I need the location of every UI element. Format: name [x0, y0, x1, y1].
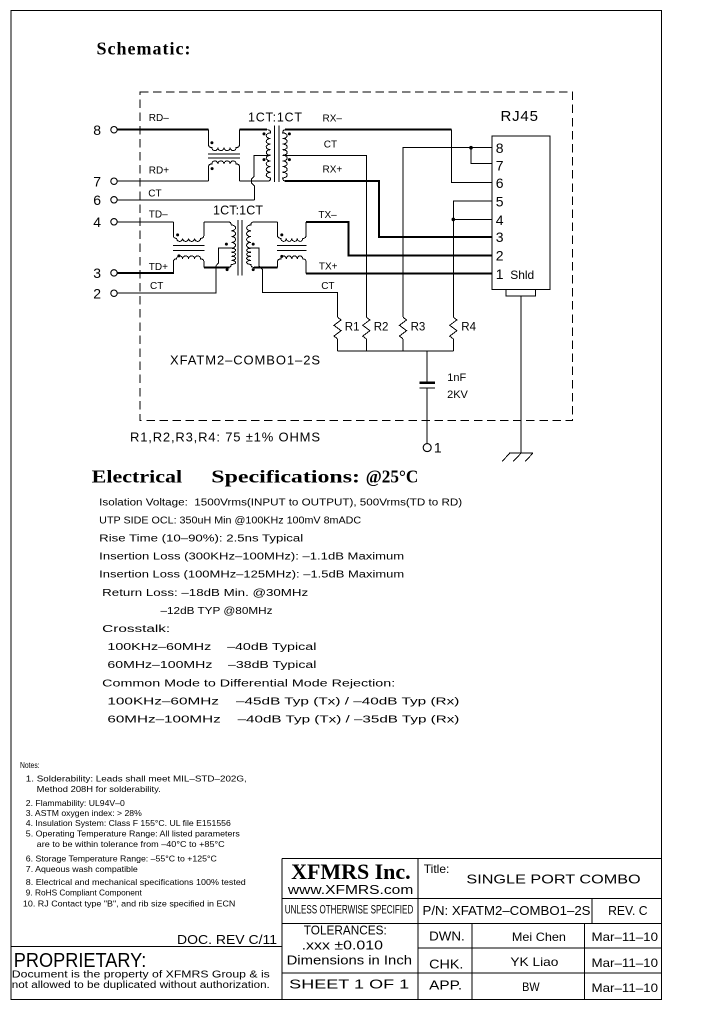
svg-text:100KHz–60MHz –40dB Typical: 100KHz–60MHz –40dB Typical — [107, 642, 316, 653]
transformer T2 secondary winding — [247, 222, 255, 268]
wire bus to capacitor C1 — [426, 351, 428, 381]
terminal pin 3 — [93, 265, 117, 281]
svg-text:R3: R3 — [411, 321, 426, 333]
resistor R4 — [450, 317, 457, 339]
svg-text:7: 7 — [93, 173, 101, 189]
svg-text:Document is the property of XF: Document is the property of XFMRS Group … — [12, 970, 270, 981]
capacitor C1 1nF 2KV — [419, 381, 435, 384]
svg-text:Mar–11–10: Mar–11–10 — [592, 930, 659, 944]
svg-text:are to be within tolerance fro: are to be within tolerance from –40°C to… — [37, 839, 225, 849]
svg-text:8: 8 — [93, 122, 101, 138]
wire T2 secondary bottom to choke — [254, 266, 278, 268]
svg-text:TX–: TX– — [318, 210, 337, 221]
wire T2 secondary center tap to R1 — [251, 248, 338, 317]
wire TX+ to RJ45 pin 1 — [306, 272, 492, 274]
wire choke to transformer T1 primary top — [240, 129, 268, 131]
svg-text:4. Insulation System: Class F: 4. Insulation System: Class F 155°C. UL … — [26, 818, 231, 828]
terminal pin 6 — [93, 192, 117, 208]
wire resistor common bus — [338, 350, 454, 352]
connector RJ45 body — [492, 136, 550, 289]
svg-text:1CT:1CT: 1CT:1CT — [248, 111, 302, 125]
common-mode choke (RX) core — [208, 154, 240, 158]
terminal pin 1 — [423, 444, 431, 452]
svg-text:TOLERANCES:: TOLERANCES: — [304, 922, 387, 937]
svg-text:1. Solderability: Leads shall: 1. Solderability: Leads shall meet MIL–S… — [26, 774, 247, 784]
common-mode choke (TD) lower winding — [173, 256, 204, 273]
svg-text:2. Flammability: UL94V–0: 2. Flammability: UL94V–0 — [26, 798, 125, 808]
ground symbol — [502, 453, 533, 461]
svg-text:DWN.: DWN. — [429, 930, 465, 944]
wire TD- pin 4 to choke — [117, 221, 173, 223]
wire RJ45 pin 8 / 7 tie, down to R3 — [403, 148, 492, 318]
common-mode choke (TD) upper winding — [173, 222, 204, 242]
svg-text:@25°C: @25°C — [366, 466, 419, 486]
common-mode choke (TD) core — [173, 245, 205, 250]
svg-text:Mar–11–10: Mar–11–10 — [592, 981, 659, 995]
wire RJ45 pin 5 / 4 tie, down to R4 — [453, 201, 492, 317]
svg-text:Rise Time (10–90%): 2.5ns Typi: Rise Time (10–90%): 2.5ns Typical — [99, 534, 303, 545]
RJ45 shield tab — [506, 289, 536, 296]
svg-text:Mei Chen: Mei Chen — [512, 930, 566, 944]
phase dot — [177, 254, 180, 257]
svg-text:8: 8 — [496, 140, 504, 156]
transformer T1 secondary winding — [283, 130, 288, 182]
transformer T1 core — [275, 126, 279, 183]
wire RX- to RJ45 pin 6 — [285, 129, 452, 131]
svg-text:8. Electrical and mechanical s: 8. Electrical and mechanical specificati… — [26, 877, 246, 887]
component outline XFATM2-COMBO1-2S (dashed box) — [140, 92, 573, 421]
svg-text:6. Storage Temperature Range:: 6. Storage Temperature Range: –55°C to +… — [26, 854, 217, 864]
svg-text:Shld: Shld — [510, 268, 534, 282]
wire RD- pin 8 to choke — [117, 129, 208, 131]
svg-text:www.XFMRS.com: www.XFMRS.com — [287, 882, 414, 897]
svg-text:Crosstalk:: Crosstalk: — [102, 624, 170, 635]
wire CT to pin 6 — [117, 199, 254, 201]
svg-text:R4: R4 — [461, 321, 476, 333]
svg-text:2: 2 — [496, 247, 504, 263]
wire choke to transformer T1 primary bottom — [240, 180, 269, 182]
transformer T2 core — [238, 220, 242, 276]
T2 secondary phase dots — [252, 243, 255, 246]
svg-text:UNLESS OTHERWISE SPECIFIED: UNLESS OTHERWISE SPECIFIED — [285, 904, 414, 916]
svg-text:Specifications:: Specifications: — [211, 466, 360, 486]
svg-text:not allowed to be duplicated w: not allowed to be duplicated without aut… — [12, 980, 270, 991]
svg-text:Return Loss: –18dB Min. @30MHz: Return Loss: –18dB Min. @30MHz — [102, 588, 308, 599]
svg-text:R1,R2,R3,R4: 75 ±1% OHMS: R1,R2,R3,R4: 75 ±1% OHMS — [130, 430, 320, 445]
wire RX+ to RJ45 pin 3 — [285, 181, 492, 237]
svg-text:.xxx ±0.010: .xxx ±0.010 — [302, 938, 383, 953]
svg-text:60MHz–100MHz –40dB Typ (Tx): 60MHz–100MHz –40dB Typ (Tx) / –35dB Typ … — [107, 715, 459, 726]
phase dot — [280, 255, 283, 258]
svg-text:APP.: APP. — [429, 979, 462, 993]
svg-text:3: 3 — [93, 265, 101, 281]
svg-text:RD–: RD– — [149, 113, 169, 124]
phase dot — [280, 233, 283, 236]
common-mode choke (RX) lower winding — [209, 161, 240, 181]
svg-text:5. Operating Temperature Range: 5. Operating Temperature Range: All list… — [26, 829, 240, 839]
svg-text:R1: R1 — [345, 321, 360, 333]
T2 primary phase dots — [225, 243, 228, 246]
svg-text:UTP SIDE OCL: 350uH Min @100KH: UTP SIDE OCL: 350uH Min @100KHz 100mV 8m… — [99, 515, 361, 526]
terminal pin 2 — [93, 285, 117, 301]
svg-text:CT: CT — [324, 140, 337, 151]
svg-text:4: 4 — [496, 212, 504, 228]
svg-text:Electrical: Electrical — [92, 466, 182, 486]
svg-text:XFATM2–COMBO1–2S: XFATM2–COMBO1–2S — [170, 353, 320, 368]
svg-text:100KHz–60MHz –45dB Typ (Tx): 100KHz–60MHz –45dB Typ (Tx) / –40dB Typ … — [107, 696, 459, 707]
svg-text:RX–: RX– — [323, 113, 343, 124]
terminal pin 8 — [93, 122, 117, 138]
phase dot — [210, 141, 213, 144]
svg-text:P/N: XFATM2–COMBO1–2S: P/N: XFATM2–COMBO1–2S — [423, 904, 591, 918]
wire T1 primary center tap — [252, 155, 271, 200]
svg-text:R2: R2 — [374, 321, 389, 333]
svg-text:1: 1 — [496, 266, 504, 282]
terminal pin 7 — [93, 173, 117, 189]
svg-text:Isolation Voltage: 1500Vrms(I: Isolation Voltage: 1500Vrms(INPUT to OUT… — [99, 497, 462, 508]
svg-text:Dimensions in Inch: Dimensions in Inch — [287, 953, 412, 968]
svg-text:Insertion Loss (100MHz–125MHz): Insertion Loss (100MHz–125MHz): –1.5dB M… — [99, 570, 404, 581]
resistor R1 — [334, 317, 341, 339]
svg-text:9. RoHS Compliant Component: 9. RoHS Compliant Component — [26, 887, 143, 897]
resistor R2 — [363, 317, 370, 339]
svg-text:CT: CT — [148, 188, 161, 199]
svg-text:60MHz–100MHz –38dB Typical: 60MHz–100MHz –38dB Typical — [107, 660, 316, 671]
svg-text:1: 1 — [434, 439, 442, 455]
resistor R3 — [399, 317, 406, 339]
svg-text:TX+: TX+ — [319, 262, 338, 273]
svg-text:7. Aqueous wash compatible: 7. Aqueous wash compatible — [26, 864, 138, 874]
junction dot pins 5/4 — [452, 218, 456, 222]
svg-text:6: 6 — [93, 192, 101, 208]
wire T2 primary center tap to pin 2 — [117, 248, 231, 293]
transformer T1 primary winding — [266, 130, 271, 182]
svg-text:2KV: 2KV — [447, 389, 468, 401]
svg-text:–12dB TYP @80MHz: –12dB TYP @80MHz — [161, 606, 273, 617]
wire capacitor to terminal 1 — [426, 389, 428, 444]
svg-text:RX+: RX+ — [323, 165, 343, 176]
svg-text:1nF: 1nF — [447, 372, 466, 384]
svg-text:PROPRIETARY:: PROPRIETARY: — [14, 950, 147, 972]
svg-text:CHK.: CHK. — [429, 957, 463, 971]
T1 secondary phase dots — [288, 132, 291, 135]
wire TX- to RJ45 pin 2 — [306, 222, 492, 256]
svg-text:DOC. REV C/11: DOC. REV C/11 — [177, 932, 277, 947]
svg-text:10. RJ Contact type "B", and r: 10. RJ Contact type "B", and rib size sp… — [23, 899, 236, 909]
svg-text:SINGLE PORT COMBO: SINGLE PORT COMBO — [466, 871, 640, 886]
svg-text:7: 7 — [496, 158, 504, 174]
svg-text:YK Liao: YK Liao — [510, 955, 558, 969]
svg-text:6: 6 — [496, 175, 504, 191]
common-mode choke (RX) upper winding — [209, 130, 240, 151]
svg-text:BW: BW — [522, 980, 540, 994]
common-mode choke (TX) lower winding — [278, 256, 307, 273]
wire choke to T2 primary top — [204, 221, 228, 223]
svg-text:CT: CT — [321, 281, 334, 292]
svg-text:Insertion Loss (300KHz–100MHz): Insertion Loss (300KHz–100MHz): –1.1dB M… — [99, 552, 404, 563]
svg-text:5: 5 — [496, 194, 504, 210]
svg-text:2: 2 — [93, 285, 101, 301]
wire TD+ pin 3 to choke — [117, 272, 174, 274]
common-mode choke (TX) upper winding — [278, 222, 307, 242]
svg-text:3: 3 — [496, 229, 504, 245]
common-mode choke (TX) core — [277, 245, 307, 250]
svg-text:CT: CT — [150, 281, 163, 292]
svg-text:4: 4 — [93, 214, 101, 230]
svg-text:TD+: TD+ — [149, 262, 168, 273]
svg-text:TD–: TD– — [149, 209, 168, 220]
svg-text:Mar–11–10: Mar–11–10 — [592, 956, 659, 970]
phase dot — [211, 167, 214, 170]
svg-text:Common Mode to Differential Mo: Common Mode to Differential Mode Rejecti… — [102, 678, 395, 689]
junction dot pins 8/7 — [469, 146, 473, 150]
wire shield to ground — [520, 296, 522, 453]
phase dot — [176, 233, 179, 236]
svg-text:SHEET 1 OF 1: SHEET 1 OF 1 — [289, 976, 409, 991]
T1 primary phase dots — [263, 132, 266, 135]
svg-text:Method 208H for solderability.: Method 208H for solderability. — [37, 784, 161, 794]
svg-text:RD+: RD+ — [149, 166, 169, 177]
wire RD+ pin 7 to choke — [117, 180, 208, 182]
wire choke to T2 primary bottom — [204, 266, 230, 268]
svg-text:Schematic:: Schematic: — [97, 39, 192, 59]
svg-text:Notes:: Notes: — [20, 760, 40, 770]
terminal pin 4 — [93, 214, 117, 230]
svg-text:1CT:1CT: 1CT:1CT — [213, 204, 263, 218]
wire RX CT to R2 — [283, 155, 366, 317]
wire T2 secondary top to choke — [254, 221, 277, 223]
svg-text:REV. C: REV. C — [608, 904, 647, 918]
transformer T2 primary winding — [228, 222, 236, 268]
svg-text:3. ASTM oxygen index: > 28%: 3. ASTM oxygen index: > 28% — [26, 808, 142, 818]
svg-text:RJ45: RJ45 — [501, 108, 539, 125]
svg-text:Title:: Title: — [424, 862, 450, 876]
svg-text:XFMRS Inc.: XFMRS Inc. — [291, 859, 411, 884]
